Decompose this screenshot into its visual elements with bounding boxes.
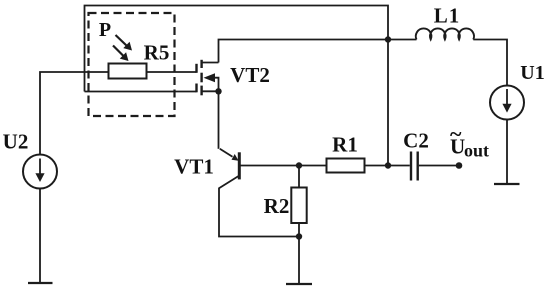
svg-text:~: ~ bbox=[450, 121, 462, 146]
svg-text:U2: U2 bbox=[3, 130, 29, 154]
svg-text:U1: U1 bbox=[520, 62, 544, 84]
svg-text:L1: L1 bbox=[434, 4, 461, 28]
svg-text:C2: C2 bbox=[403, 129, 429, 153]
svg-text:VT2: VT2 bbox=[230, 63, 270, 87]
svg-text:R1: R1 bbox=[332, 133, 358, 157]
svg-text:VT1: VT1 bbox=[174, 155, 214, 179]
svg-text:R2: R2 bbox=[264, 194, 290, 218]
svg-text:P: P bbox=[99, 19, 111, 41]
svg-text:out: out bbox=[464, 141, 489, 161]
svg-text:R5: R5 bbox=[144, 41, 170, 65]
